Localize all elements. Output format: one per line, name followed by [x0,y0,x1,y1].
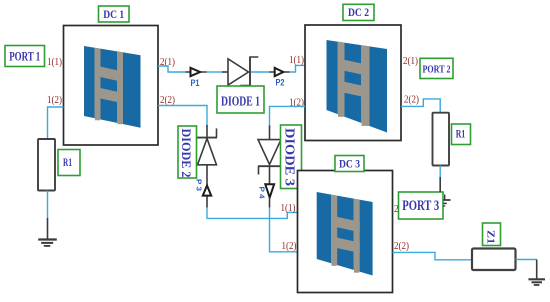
label R1 (left) [58,150,80,176]
svg-text:2(2): 2(2) [394,241,409,252]
label DC 3 [335,156,364,172]
port PORT 2 [420,58,453,78]
probe P1 [186,68,207,88]
svg-text:DC 3: DC 3 [339,158,360,170]
wire DC3 pin 2(2) to Z [393,252,473,259]
ground (mid right, small) [440,177,450,206]
svg-text:1(2): 1(2) [47,95,62,106]
subcircuit DC 3 [298,171,393,293]
svg-text:2(2): 2(2) [404,95,419,106]
diode DIODE3 [258,126,281,185]
wire R1 (right) down [439,166,441,178]
svg-text:1(1): 1(1) [47,57,62,68]
port PORT 3 [399,192,444,219]
svg-text:Z1: Z1 [485,230,496,244]
wire R1 to ground [47,191,49,219]
wire DC2 pin 1(2) to DIODE3 [270,106,306,127]
svg-text:DC 2: DC 2 [348,7,369,19]
svg-text:1(1): 1(1) [289,55,304,66]
svg-text:PORT 2: PORT 2 [423,63,451,75]
probe P4 [258,184,275,207]
svg-text:1(1): 1(1) [281,203,296,214]
resistor R1 (left) [38,139,55,191]
port PORT 1 [5,46,45,67]
diode DIODE1 [222,57,258,86]
label R1 (right) [452,124,471,145]
impedance Z1 [472,249,516,271]
wire DIODE1 to P2 [251,71,270,73]
subcircuit DC 2 [305,25,401,141]
resistor R1 (right) [433,113,450,166]
diode DIODE2 [197,125,217,208]
label DIODE 1 [217,86,264,113]
svg-text:P2: P2 [276,78,285,88]
svg-text:2(2): 2(2) [160,95,175,106]
svg-text:DIODE 1: DIODE 1 [221,95,260,110]
probe P2 [269,68,289,88]
label DC 2 [343,4,374,20]
subcircuit DC 1 [64,26,159,146]
svg-text:2(1): 2(1) [403,56,418,67]
svg-text:PORT 3: PORT 3 [402,198,439,214]
wire Z to ground [516,259,537,261]
svg-text:1(2): 1(2) [282,241,297,252]
label Z1 [483,223,501,246]
ground (left) [38,218,57,246]
label DC 1 [99,6,130,22]
svg-text:P 3: P 3 [195,179,204,191]
wire DC1 pin 1(2) to R1 [48,107,64,139]
wire P4 to DC3 pin 1(2) [270,208,298,252]
wire P2 to DC2 pin 1(1) [290,65,305,72]
svg-text:DC 1: DC 1 [103,9,124,21]
wire DC1 pin 2(2) to DIODE2 [158,106,207,127]
wire P1 to DIODE1 [207,71,223,73]
label DIODE 3 [281,125,302,189]
svg-text:PORT 1: PORT 1 [9,49,40,64]
wire DIODE2/P3 to DC3 pin 1(1) [207,208,297,219]
svg-text:DIODE 2: DIODE 2 [179,129,194,178]
wire DC1 pin 2(1) to P1 [158,66,186,72]
ground (bottom right) [529,260,546,286]
probe P3 [195,179,212,196]
svg-text:DIODE 3: DIODE 3 [283,128,298,186]
wire DC2 pin 2(2) to R1 (right) [401,99,440,113]
svg-text:R1: R1 [456,127,466,141]
svg-text:P1: P1 [191,78,200,88]
svg-text:R1: R1 [63,155,72,169]
label DIODE 2 [178,126,197,178]
svg-text:P 4: P 4 [258,187,267,200]
